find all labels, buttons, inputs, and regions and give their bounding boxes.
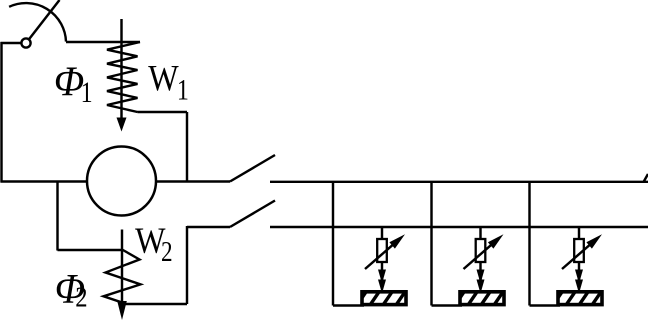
svg-text:Φ: Φ — [54, 58, 84, 105]
svg-text:2: 2 — [75, 281, 87, 313]
svg-text:W: W — [148, 59, 179, 100]
svg-text:1: 1 — [81, 75, 93, 108]
svg-text:1: 1 — [177, 73, 189, 106]
svg-text:2: 2 — [161, 236, 173, 268]
